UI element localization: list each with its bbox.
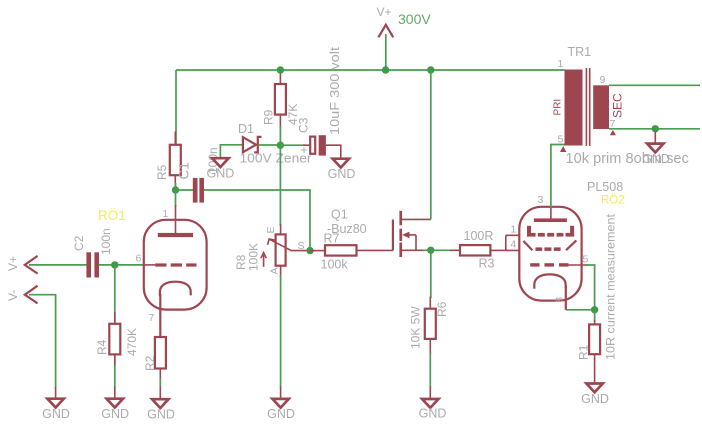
svg-text:GND: GND [642,152,670,166]
wire R8 bottom to GND [280,275,282,388]
wire R5 to node A [175,183,177,190]
wire C2 to grid node [99,264,144,266]
svg-text:V+: V+ [6,256,20,271]
svg-text:S: S [298,240,305,252]
wire pin5 riser to cathode node [586,265,595,310]
svg-text:4: 4 [511,239,517,251]
tube RO2 pentode envelope PL508 [519,207,581,301]
svg-text:SEC: SEC [611,93,625,118]
wire Q1 source to node C [423,249,431,251]
svg-text:R1: R1 [577,344,591,360]
svg-text:R6: R6 [435,301,449,317]
svg-text:3: 3 [538,194,544,206]
ground GND (D1 anode) [212,158,228,167]
ground GND (R8) [272,387,288,408]
svg-text:C3: C3 [297,117,311,133]
resistor R1 [589,320,600,383]
pentode cathode [534,274,566,309]
svg-text:+: + [301,143,308,157]
ground GND (V-) [47,387,63,408]
svg-text:8: 8 [555,297,566,303]
svg-text:100K: 100K [247,243,261,271]
junction sec GND [652,125,659,132]
svg-text:RÖ2: RÖ2 [601,195,625,207]
svg-text:1: 1 [558,58,564,70]
junction top rail / R9 [277,66,284,73]
capacitor C2 [86,252,99,277]
pentode grid row C [530,263,588,266]
svg-text:GND: GND [581,392,609,406]
svg-text:1: 1 [511,224,517,236]
wire TR1 pin9 out [609,84,700,86]
supply V+ 300V symbol [378,25,393,70]
svg-text:6: 6 [136,253,142,265]
diode D1 100V zener [243,137,262,153]
wire cathode to node D [566,309,595,311]
svg-text:R2: R2 [143,355,157,371]
junction top rail / V+ [382,66,389,73]
svg-text:R9: R9 [262,109,276,125]
svg-text:R5: R5 [155,164,169,180]
svg-text:470K: 470K [125,328,139,356]
ground GND (R1) [586,384,602,393]
resistor R2 [155,337,166,380]
svg-text:10R current measurement: 10R current measurement [604,213,618,360]
junction node D (cathode/pin5/R1) [591,306,598,313]
svg-text:100R: 100R [464,229,494,243]
junction node C (source/R3/R6) [427,247,434,254]
wire R5 top drop [175,70,177,145]
transistor Q1 mosfet [393,211,431,257]
wire D1 anode feed with GND stub [220,145,243,157]
svg-text:V+: V+ [377,5,392,19]
svg-text:GND: GND [42,407,70,421]
junction node B (D1/R9/C3/R8) [277,142,284,149]
wire pins 1+4 tie [506,235,527,250]
svg-text:D1: D1 [238,122,254,136]
wire node D to R1 [594,310,596,322]
polarity mark secondary [610,130,616,135]
svg-text:100k: 100k [321,258,349,272]
wire R2 to GND [159,378,161,388]
svg-text:C2: C2 [72,235,86,251]
pentode anode plate [534,207,567,222]
wire grid node down to R4 [114,265,116,366]
polarity mark primary [560,146,566,152]
svg-text:300V: 300V [398,11,431,27]
ground GND (C3) [333,159,349,168]
transformer TR1 secondary [593,85,609,129]
ground GND (TR1 sec) [647,132,663,153]
transformer TR1 primary [565,70,583,146]
svg-text:GND: GND [328,167,356,181]
connector V- (left) [25,286,38,304]
wire R6 to GND [429,353,431,388]
resistor R9 [275,74,286,129]
svg-text:1: 1 [163,208,169,220]
svg-text:9: 9 [600,74,606,86]
svg-text:-Buz80: -Buz80 [327,222,367,236]
resistor R7 [310,245,393,255]
svg-text:GND: GND [267,407,295,421]
junction node S (wiper/C1/R7) [306,247,313,254]
svg-text:C1: C1 [177,162,192,179]
wire top supply rail [176,69,565,71]
resistor R6 [425,297,436,355]
svg-text:PRI: PRI [553,99,564,116]
resistor R4 [109,312,120,366]
svg-text:10K 5W: 10K 5W [409,306,423,349]
junction grid node (C2/R4/tube pin6) [111,261,118,268]
svg-text:A: A [269,267,281,274]
ground GND (R2) [152,387,168,409]
svg-text:100n: 100n [99,228,113,255]
wire node A to C1 [176,189,194,191]
wire V+ to C2 [29,264,87,266]
junction node A (R5/C1/tube anode) [172,186,179,193]
svg-text:E: E [265,226,277,233]
svg-text:10uF 300 volt: 10uF 300 volt [328,46,342,135]
wire R4 to GND [114,365,116,388]
svg-text:PL508: PL508 [587,180,623,194]
svg-text:10k prim 8ohm sec: 10k prim 8ohm sec [566,151,689,167]
resistor R5 [170,132,181,187]
wire Q1 drain to top rail [430,70,432,219]
junction top rail / Q1 drain [427,66,434,73]
svg-text:R3: R3 [479,257,495,271]
svg-text:GND: GND [147,408,175,422]
svg-text:RÖ1: RÖ1 [98,208,126,223]
ground GND (R6) [422,387,438,408]
wire node A down to tube pin 1 [175,190,177,207]
wire D1 cathode to node B [259,144,280,146]
wire C3 to GND [326,145,341,158]
pentode grid row B (beam plates) [523,240,576,251]
transformer core [586,68,589,146]
svg-text:5: 5 [583,254,589,266]
svg-text:V-: V- [6,290,20,301]
resistor R3 [450,245,506,255]
svg-text:GND: GND [207,167,235,181]
wire TR1 pin7 out [609,128,700,130]
wire V- to GND [29,295,56,388]
tube RO1 triode envelope [144,220,207,310]
wire node C to R3 [431,249,452,251]
wire node B to C3 [280,144,305,146]
wire TR1 pin5 to pentode anode [551,145,565,209]
connector V+ (left) [25,256,38,274]
svg-text:GND: GND [101,407,129,421]
ground GND (R4) [107,387,123,408]
wire R9 to node B [279,126,281,145]
svg-text:GND: GND [419,407,447,421]
svg-text:7: 7 [149,312,155,324]
capacitor C3 10uF 300 volt [310,135,326,155]
svg-text:Q1: Q1 [331,208,348,222]
wire C1 to S-node riser [204,190,310,250]
wire node C to R6 [430,250,432,298]
wire node B down to potentiometer E [279,145,281,226]
triode cathode [160,282,191,337]
svg-text:R4: R4 [95,339,109,355]
capacitor C1 [193,178,204,203]
svg-text:TR1: TR1 [568,45,592,59]
triode anode plate [158,205,193,237]
pentode grid row A [527,226,574,237]
potentiometer R8 [261,224,310,277]
triode grid dashes [144,263,197,266]
